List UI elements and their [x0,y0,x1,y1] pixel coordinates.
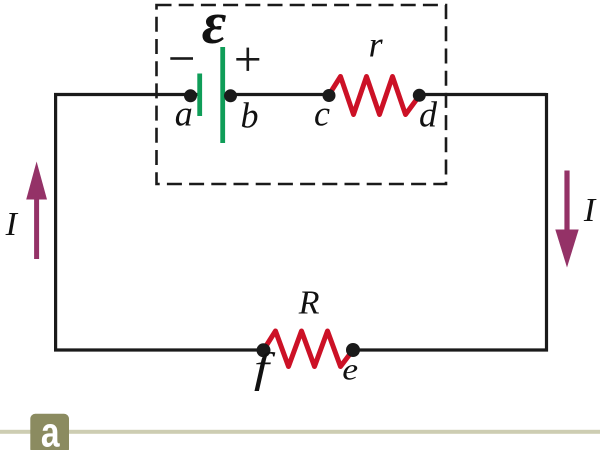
wire: top segment d to top-right corner [418,93,547,96]
node f dot [257,343,271,357]
current arrow left (up) [26,162,47,260]
svg-text:f: f [254,345,276,392]
svg-text:a: a [175,94,193,134]
svg-text:a: a [41,410,60,450]
node a dot [184,89,197,102]
resistor R zigzag [264,331,354,367]
minus sign [170,57,193,60]
svg-text:ε: ε [202,0,227,56]
caption marker box [30,414,69,450]
svg-text:e: e [342,353,358,387]
caption rule (light olive horizontal line) [0,430,600,434]
svg-text:I: I [583,192,597,229]
wire: right vertical side + bottom-right to node e [353,93,547,350]
plus sign [236,48,259,71]
wire: top-left segment (left corner to node a / negative plate) [54,93,199,96]
svg-text:R: R [298,284,320,321]
svg-text:I: I [5,206,19,243]
svg-text:d: d [419,94,438,134]
current arrow right (down) [555,171,578,268]
node e dot [346,343,360,357]
svg-text:r: r [369,24,384,64]
wire: left vertical side + bottom-left to node f [56,93,264,350]
node d dot [413,89,426,102]
node b dot [224,89,237,102]
battery negative plate (short green bar) [197,74,202,117]
resistor r zigzag [329,77,420,115]
wire: top segment b to c [222,93,330,96]
svg-text:b: b [241,96,259,136]
svg-text:c: c [314,94,330,134]
dashed battery-enclosure box [157,5,447,184]
node c dot [323,89,336,102]
battery positive plate (long green bar) [220,47,225,143]
